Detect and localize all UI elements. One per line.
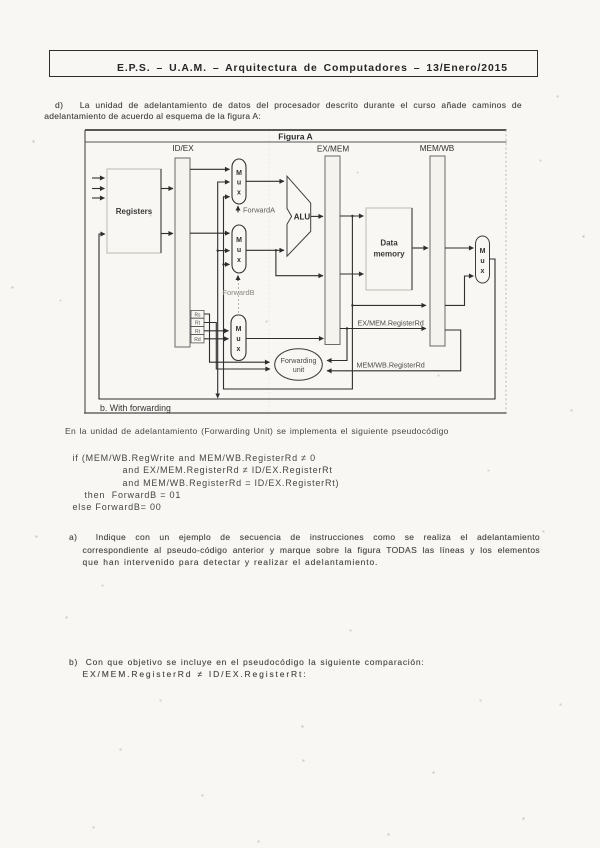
mux M1 (ForwardA mux) xyxy=(232,159,246,204)
wire: EX/MEM.RegisterRd to MEM/WB xyxy=(340,328,426,330)
wire: EX/MEM store data to Data memory write data xyxy=(340,273,364,275)
wire: ALU result into EX/MEM xyxy=(311,215,323,217)
paragraph d line 1 xyxy=(55,99,522,111)
wire: ID/EX to mux M2 input 1 xyxy=(190,232,230,234)
wire: ID/EX.RegisterRd to mux M3 input 2 xyxy=(204,338,229,340)
register field box Rt (1) xyxy=(191,318,204,326)
svg-text:EX/MEM.RegisterRd: EX/MEM.RegisterRd xyxy=(358,319,424,328)
wire: ID/EX.RegisterRt to mux M3 input 1 xyxy=(204,330,229,332)
register field box Rs xyxy=(191,310,204,318)
mux M2 (ForwardB mux) xyxy=(232,225,246,273)
wire: ForwardB control dashed riser from forwarding unit xyxy=(238,283,240,313)
scan noise dots xyxy=(0,0,1,1)
header box xyxy=(49,50,538,77)
svg-text:Rd: Rd xyxy=(194,337,201,343)
svg-text:M: M xyxy=(236,326,242,333)
ALU xyxy=(287,176,311,256)
svg-text:Figura A: Figura A xyxy=(278,132,313,142)
wire: mux M2 output to ALU lower input xyxy=(246,249,284,251)
paragraph b xyxy=(69,656,540,680)
paragraph d line 2 xyxy=(44,110,444,122)
figure frame title underline xyxy=(85,141,507,143)
svg-text:x: x xyxy=(237,190,241,197)
Data memory box xyxy=(366,208,412,290)
wire: ALU result into MEM/WB xyxy=(352,304,426,306)
wire: ForwardA control arrow into mux M1 xyxy=(237,206,239,213)
wire: store data branch into EX/MEM xyxy=(276,250,323,275)
MEM/WB pipeline register xyxy=(430,156,445,346)
node: junction store-data branch xyxy=(275,249,277,251)
svg-text:u: u xyxy=(480,258,484,265)
svg-text:ForwardA: ForwardA xyxy=(243,206,275,215)
svg-text:ForwardB: ForwardB xyxy=(223,288,255,297)
paragraph a xyxy=(69,531,540,569)
svg-text:memory: memory xyxy=(373,250,405,259)
forwarding unit ellipse xyxy=(275,349,323,381)
register field box Rd xyxy=(191,335,204,343)
svg-text:MEM/WB.RegisterRd: MEM/WB.RegisterRd xyxy=(357,361,425,370)
wire: Data memory read data to MEM/WB xyxy=(412,247,428,249)
wire: ForwardB control arrow into mux M2 xyxy=(237,276,239,282)
Registers box xyxy=(107,169,161,253)
wire: WB forward path up to mux M1 input 2 xyxy=(218,182,230,398)
wire: Registers read data 2 to ID/EX xyxy=(161,233,173,235)
svg-text:unit: unit xyxy=(293,365,305,374)
wire: MEM/WB.RegisterRd to forwarding unit xyxy=(327,330,461,371)
wire: EX/MEM forward path down, along bottom, up to mux M1 input 3 xyxy=(224,197,353,389)
svg-text:M: M xyxy=(236,237,242,244)
wire: EX/MEM forward branch to mux M2 input 3 xyxy=(224,263,230,265)
svg-text:Data: Data xyxy=(380,239,398,248)
node: junction WB forward / M2 xyxy=(217,249,219,251)
svg-text:M: M xyxy=(480,248,486,255)
header title xyxy=(117,63,508,74)
wire: ID/EX.RegisterRs to forwarding unit xyxy=(204,314,270,362)
svg-text:u: u xyxy=(237,247,241,254)
wire: WB forward branch to mux M2 input 2 xyxy=(218,250,230,252)
node: WB forward tap arrow on bottom bus xyxy=(215,394,220,399)
wire: MEM/WB read data to mux M4 input 1 xyxy=(445,247,474,249)
mux M4 (write-back mux) xyxy=(476,236,490,283)
node: junction EX/MEM.RegisterRd branch xyxy=(346,327,348,329)
svg-text:Rt: Rt xyxy=(195,329,201,335)
svg-text:x: x xyxy=(237,346,241,353)
wire: ID/EX.RegisterRt to forwarding unit xyxy=(204,323,270,370)
mux M3 (RegDst mux) xyxy=(231,315,246,361)
node: junction EX/MEM forward / M2 xyxy=(222,263,224,265)
svg-text:M: M xyxy=(236,170,242,177)
ID/EX pipeline register xyxy=(175,158,190,347)
node: junction ALU result forward tap xyxy=(351,215,353,217)
intro line for pseudocode xyxy=(65,426,449,436)
figure frame right (faint dashed) xyxy=(505,130,507,413)
wire: EX/MEM.RegisterRd down into forwarding unit xyxy=(327,329,347,361)
svg-text:u: u xyxy=(236,336,240,343)
wire: Registers read data 1 to ID/EX xyxy=(161,188,173,190)
figure frame bottom xyxy=(84,412,507,414)
svg-text:Forwarding: Forwarding xyxy=(281,356,317,365)
wire: ID/EX to mux M1 input 1 xyxy=(190,168,230,170)
wire: read input arrow 1 into Registers xyxy=(92,177,105,179)
wire: mux M3 output RegisterRd into EX/MEM xyxy=(246,338,324,340)
wire: mux M4 output write-back loop to Registers xyxy=(99,234,495,399)
svg-text:x: x xyxy=(237,257,241,264)
node: junction ALU result to MEM/WB xyxy=(351,304,353,306)
svg-text:Registers: Registers xyxy=(116,207,153,216)
svg-text:b. With forwarding: b. With forwarding xyxy=(100,403,171,413)
wire: EX/MEM ALU result to Data memory address xyxy=(340,215,364,217)
svg-text:u: u xyxy=(237,180,241,187)
EX/MEM pipeline register xyxy=(325,156,340,345)
svg-text:EX/MEM: EX/MEM xyxy=(317,145,349,154)
svg-text:MEM/WB: MEM/WB xyxy=(420,144,455,153)
svg-text:Rs: Rs xyxy=(194,313,201,319)
svg-text:ID/EX: ID/EX xyxy=(172,144,194,153)
figure frame top xyxy=(85,129,507,131)
svg-text:ALU: ALU xyxy=(294,213,311,222)
figure frame left xyxy=(84,130,86,413)
register field box Rt (2) xyxy=(191,327,204,335)
svg-text:Rt: Rt xyxy=(195,321,201,327)
scan fold artifact line xyxy=(268,131,270,412)
wire: mux M1 output to ALU upper input xyxy=(246,180,284,182)
pseudocode block xyxy=(73,452,340,513)
wire: read input arrow 2 into Registers xyxy=(92,188,105,190)
svg-text:x: x xyxy=(481,268,485,275)
wire: read input arrow 3 into Registers xyxy=(92,197,105,199)
wire: MEM/WB ALU result to mux M4 input 2 xyxy=(445,276,474,305)
